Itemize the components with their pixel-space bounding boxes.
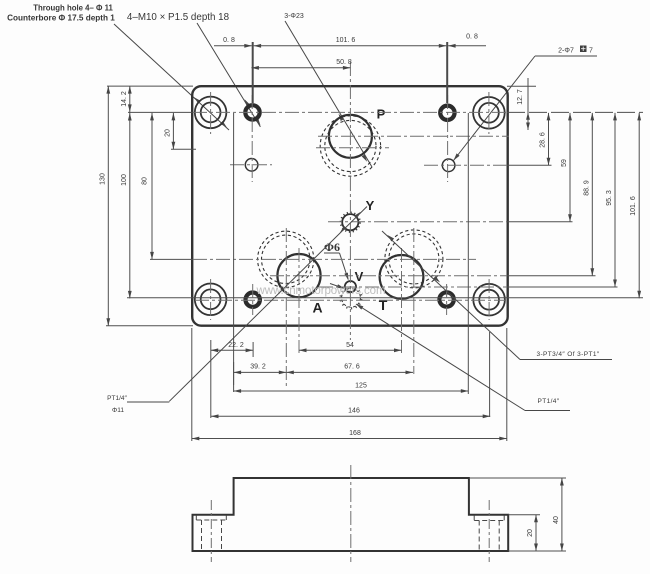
dimension 88.9 right xyxy=(583,113,594,276)
dimension 54 xyxy=(299,342,402,352)
extension vertical plate right edge to 168 xyxy=(506,328,508,441)
dimension 50.8 xyxy=(251,59,351,70)
extension line plate top edge right xyxy=(507,85,536,87)
dimension 20 left xyxy=(164,113,175,149)
centerline vertical left M10-phi7 xyxy=(251,95,253,182)
extension vertical plate left edge to 168 xyxy=(191,328,193,441)
counterbore hole bottom-left (phi17.5/phi11) xyxy=(195,284,227,316)
extension line 20-dim stub xyxy=(171,148,196,150)
counterbore hole top-left (phi17.5/phi11) xyxy=(195,97,227,129)
bottom view centerline left hole xyxy=(210,500,212,562)
centerline valve ports A-T horizontal xyxy=(150,258,476,260)
svg-text:130: 130 xyxy=(99,173,106,185)
bottom view hidden counterbore left xyxy=(196,515,226,549)
label PT1/4 (port V) xyxy=(537,398,559,405)
dimension 67.6 xyxy=(286,364,413,375)
svg-text:A: A xyxy=(312,300,322,316)
M10 threaded hole top-left xyxy=(245,105,259,119)
centerline vertical T valve face xyxy=(413,228,415,374)
watermark text xyxy=(256,285,386,297)
dimension 0.8 right xyxy=(448,34,486,48)
M10 threaded hole top-right xyxy=(440,106,454,120)
svg-text:PT1/4″: PT1/4″ xyxy=(107,395,127,402)
dimension 20 bottom view xyxy=(527,515,538,551)
port Y label xyxy=(366,198,375,213)
centerline vertical A valve face xyxy=(285,228,287,386)
dimension 101.6 top xyxy=(254,37,447,48)
extension vertical right M10 pair (0.8) xyxy=(446,42,448,103)
dimension 22.2 xyxy=(211,342,253,352)
port P label xyxy=(377,107,386,122)
M10 threaded hole bottom-left xyxy=(246,293,260,307)
extension vertical left counterbore to dims xyxy=(210,340,212,418)
label: through hole note line1 xyxy=(33,4,113,13)
svg-text:146: 146 xyxy=(348,408,360,415)
extension tick for 22.2 right end xyxy=(252,342,254,357)
svg-text:168: 168 xyxy=(349,430,361,437)
svg-text:101. 6: 101. 6 xyxy=(630,196,637,216)
phi6 label xyxy=(324,240,340,254)
leader: phi6 to port V xyxy=(324,253,348,280)
pin hole phi7 left xyxy=(245,159,258,172)
svg-text:14. 2: 14. 2 xyxy=(121,91,128,107)
dimension 14.2 and 100 left xyxy=(121,86,132,298)
dimension 12.7 right xyxy=(517,78,530,130)
svg-text:88. 9: 88. 9 xyxy=(583,180,590,196)
svg-text:Counterbore Φ 17.5 depth 1: Counterbore Φ 17.5 depth 1 xyxy=(7,14,115,23)
svg-text:80: 80 xyxy=(142,177,149,185)
plate outline (top view) xyxy=(192,86,508,326)
bottom view extension shoulder xyxy=(508,514,540,516)
dimension 80 left xyxy=(142,113,154,260)
leader: through-hole note to counterbore xyxy=(114,24,229,130)
pilot port V circle xyxy=(345,281,356,292)
dimension 101.6 right xyxy=(630,113,641,298)
svg-text:101. 6: 101. 6 xyxy=(336,37,356,44)
bottom view hidden counterbore right xyxy=(474,515,504,549)
centerline V horizontal xyxy=(319,286,618,288)
centerline horizontal bottom bolt row xyxy=(127,298,643,300)
svg-text:0. 8: 0. 8 xyxy=(466,34,478,41)
leader: 2-phi7 note to pin hole xyxy=(454,56,598,161)
extension vertical valve boss left edge xyxy=(233,113,235,392)
leader: 3-PT to port T xyxy=(382,231,612,360)
port V label xyxy=(355,269,364,284)
svg-text:39. 2: 39. 2 xyxy=(250,364,266,371)
svg-text:Through hole 4– Φ 11: Through hole 4– Φ 11 xyxy=(33,4,113,13)
svg-text:20: 20 xyxy=(527,529,534,537)
centerline phi7 left xyxy=(230,164,272,166)
centerline horizontal top bolt row xyxy=(128,111,643,113)
dimension 40 bottom view xyxy=(553,478,564,551)
svg-text:50. 8: 50. 8 xyxy=(336,59,352,66)
bottom view centerline right hole xyxy=(488,500,490,562)
pilot port Y threaded circle xyxy=(340,212,361,233)
dimension 95.3 right xyxy=(606,113,617,287)
M10 threaded hole bottom-right xyxy=(439,292,453,306)
extension line plate top edge left xyxy=(107,85,193,87)
dimension 28.6 right xyxy=(540,113,551,165)
label: counterbore note line2 xyxy=(7,14,115,23)
bottom view centerline middle xyxy=(350,465,352,562)
port T valve-face dashed circles xyxy=(385,230,443,288)
dimension 146 xyxy=(211,408,490,419)
centerline vertical right M10-phi7 xyxy=(447,95,449,182)
label: 4-M10 thread note xyxy=(127,12,230,23)
leader: 4-M10 note to threaded hole xyxy=(197,23,261,127)
svg-text:Y: Y xyxy=(366,198,375,213)
svg-text:3-PT3/4″ Of 3-PT1″: 3-PT3/4″ Of 3-PT1″ xyxy=(536,351,599,358)
extension line plate bottom edge left xyxy=(106,325,193,327)
centerline ports A-T horizontal xyxy=(270,275,596,277)
svg-text:59: 59 xyxy=(561,159,568,167)
leader: 3-phi23 note to port P xyxy=(285,21,372,167)
centerline vertical TR counterbore xyxy=(488,92,490,134)
centerline port P horizontal xyxy=(318,135,509,137)
small leader arrow at V left xyxy=(330,284,345,289)
svg-text:0. 8: 0. 8 xyxy=(223,37,235,44)
centerline Y horizontal xyxy=(328,221,573,223)
centerline vertical BR counterbore xyxy=(488,279,490,320)
dimension 130 left xyxy=(99,86,110,326)
centerline P valve face horizontal xyxy=(316,147,389,149)
extension vertical 39.2 left end xyxy=(233,362,235,385)
bottom view extension boss top xyxy=(469,477,566,479)
leader: PT1/4 to Y through A xyxy=(127,207,367,403)
svg-text:28. 6: 28. 6 xyxy=(540,132,547,148)
bottom view outline xyxy=(193,478,509,551)
dimension 0.8 left xyxy=(214,37,252,48)
svg-text:3-Φ23: 3-Φ23 xyxy=(284,13,304,20)
svg-text:20: 20 xyxy=(164,129,171,137)
centerline vertical port T xyxy=(401,248,403,353)
extension vertical right counterbore to dims xyxy=(489,332,491,417)
port P circle xyxy=(329,115,372,158)
counterbore hole top-right (phi17.5/phi11) xyxy=(473,97,505,129)
port A circle xyxy=(277,254,320,297)
dimension 59 right xyxy=(561,113,572,222)
svg-text:100: 100 xyxy=(121,174,128,186)
svg-text:P: P xyxy=(377,107,386,122)
svg-text:2-Φ7: 2-Φ7 xyxy=(558,48,574,55)
centerline vertical port A xyxy=(298,248,300,353)
svg-text:54: 54 xyxy=(346,342,354,349)
centerline vertical P-Y-V xyxy=(349,62,351,340)
centerline phi7 right xyxy=(424,164,552,166)
svg-text:40: 40 xyxy=(553,516,560,524)
counterbore hole bottom-right (phi17.5/phi11) xyxy=(473,284,505,316)
dimension 39.2 xyxy=(234,364,287,375)
label: 3-phi23 port note xyxy=(284,13,304,20)
port T label xyxy=(379,297,388,313)
svg-text:67. 6: 67. 6 xyxy=(344,364,360,371)
centerline vertical TL counterbore xyxy=(210,92,212,134)
leader: PT1/4 to port V xyxy=(356,304,570,411)
label 3-PT3/4 of 3-PT1 (main ports) xyxy=(536,351,599,358)
port T circle xyxy=(380,255,424,299)
svg-text:V: V xyxy=(355,269,364,284)
centerline vertical BR M10 xyxy=(446,284,448,315)
extension vertical left M10 pair (0.8) xyxy=(252,42,254,103)
port A valve-face dashed circles xyxy=(258,231,314,287)
centerline vertical BL M10 xyxy=(252,284,254,315)
svg-text:22. 2: 22. 2 xyxy=(228,342,244,349)
extension vertical valve boss right edge xyxy=(467,113,469,394)
dimension 125 xyxy=(234,383,469,393)
svg-text:Φ11: Φ11 xyxy=(112,407,124,414)
port V dashed thread circle xyxy=(340,286,363,309)
pin hole phi7 right xyxy=(442,159,455,172)
svg-text:7: 7 xyxy=(589,48,593,55)
svg-text:T: T xyxy=(379,297,388,313)
svg-text:125: 125 xyxy=(355,383,367,390)
svg-text:95. 3: 95. 3 xyxy=(606,190,613,206)
port A label xyxy=(312,300,322,316)
label PT1/4 phi11 (port Y) xyxy=(107,395,127,414)
dimension 168 xyxy=(192,430,507,440)
bottom view extension bottom xyxy=(508,550,566,552)
svg-text:PT1/4″: PT1/4″ xyxy=(537,398,559,405)
label: 2-phi7 pin hole note xyxy=(558,46,593,55)
svg-text:4–M10 × P1.5 depth 18: 4–M10 × P1.5 depth 18 xyxy=(127,12,230,23)
centerline vertical BL counterbore xyxy=(210,279,212,320)
port P valve-face dashed circles xyxy=(320,116,380,176)
svg-text:12. 7: 12. 7 xyxy=(517,89,524,105)
